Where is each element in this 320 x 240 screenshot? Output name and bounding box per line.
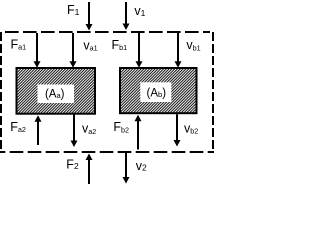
svg-text:Fa1: Fa1 [11, 37, 27, 51]
arrow Fb2 (up, out of block Ab bottom) [135, 115, 142, 150]
block Ab hatched box [120, 68, 197, 113]
arrow vb1 (down, into block Ab) [175, 33, 182, 68]
svg-text:Fa2: Fa2 [10, 120, 26, 134]
arrow v1 (down, into boundary) [123, 2, 130, 30]
svg-text:Fb2: Fb2 [113, 120, 129, 134]
dashed boundary right edge [212, 32, 214, 153]
svg-text:vb1: vb1 [186, 38, 200, 52]
block Ab white label plate [140, 82, 171, 102]
block Aa hatched box [17, 68, 96, 114]
arrow vb2 (down, from block Ab bottom) [174, 114, 181, 146]
svg-text:va1: va1 [83, 38, 97, 52]
svg-text:vb2: vb2 [184, 122, 198, 136]
arrow Fa1 (down, into block Aa) [34, 33, 41, 68]
svg-text:(Aa): (Aa) [45, 89, 65, 101]
arrow Fa2 (up, out of block Aa bottom) [35, 115, 42, 145]
svg-text:v1: v1 [134, 4, 145, 18]
arrow Fb1 (down, into block Ab) [136, 33, 143, 68]
arrow F1 (down, into boundary) [86, 2, 93, 31]
svg-text:(Ab): (Ab) [147, 88, 167, 100]
svg-text:F1: F1 [67, 3, 80, 17]
dashed boundary left edge [0, 32, 2, 153]
arrow va2 (down, from block Aa bottom) [71, 115, 78, 148]
arrow v2 (down, out of boundary bottom) [123, 153, 130, 184]
dashed boundary bottom edge [0, 151, 214, 153]
dashed boundary top edge [5, 31, 210, 33]
arrow F2 (up, into boundary bottom) [86, 154, 93, 185]
svg-text:va2: va2 [82, 122, 96, 136]
block Aa white label plate [38, 85, 75, 104]
svg-text:Fb1: Fb1 [112, 38, 128, 52]
svg-text:F2: F2 [66, 157, 79, 171]
svg-text:v2: v2 [136, 159, 147, 173]
arrow va1 (down, into block Aa) [70, 33, 77, 68]
